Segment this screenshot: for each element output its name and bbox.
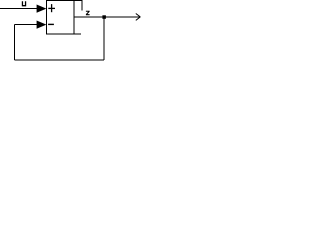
arrowhead feedback input (37, 21, 47, 29)
arrowhead input u (37, 5, 47, 13)
node junction dot (102, 15, 106, 18)
wire feedback left vertical (13, 25, 15, 61)
plus sign (48, 7, 55, 9)
short right vertical edge (81, 0, 83, 11)
summing block bottom edge (46, 33, 81, 35)
label u (22, 1, 26, 6)
label z (86, 11, 90, 16)
wire feedback upper (14, 24, 37, 26)
wire feedback bottom (14, 59, 104, 61)
wire feedback right vertical (103, 17, 105, 60)
summing block middle vertical edge (73, 0, 75, 35)
wire z output (74, 16, 141, 18)
output arrowhead open (136, 14, 141, 21)
wire u input (0, 8, 37, 10)
minus sign (48, 23, 54, 25)
background (0, 0, 142, 63)
summing block top edge (46, 0, 82, 2)
summing block left edge (46, 0, 48, 35)
